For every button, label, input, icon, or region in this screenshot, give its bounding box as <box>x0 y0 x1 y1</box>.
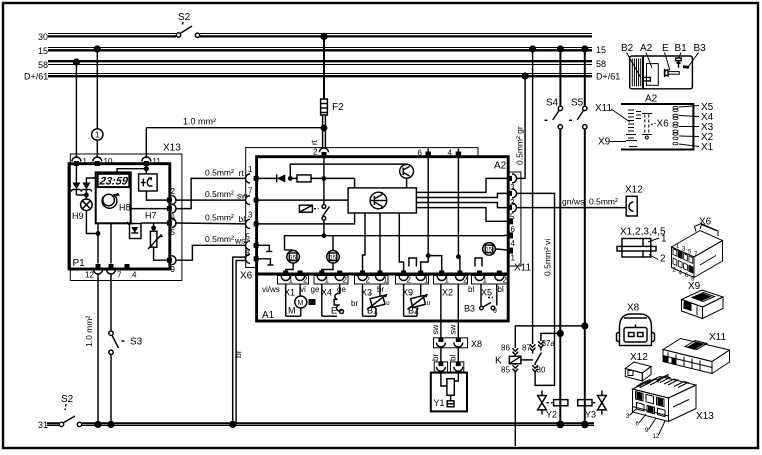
wire IC2 tail to block X4 pin <box>322 263 333 271</box>
A2 right pin 4 <box>508 232 514 238</box>
wire X13 pin9 to A1 pin5 (ws) <box>176 245 246 260</box>
svg-text:X13: X13 <box>163 143 181 154</box>
svg-text:rt: rt <box>239 168 245 178</box>
sensor B2 (trimmer, in A1) <box>403 284 405 316</box>
node: junction F2 / 1.0mm2 wire <box>321 125 328 132</box>
B3 part <box>683 65 689 69</box>
svg-text:58: 58 <box>596 59 606 69</box>
svg-text:B3: B3 <box>464 304 475 314</box>
wire 87a up to S4 wire <box>541 333 560 339</box>
wire X13 pin6 to A1 pin1 (rt) <box>176 178 246 208</box>
connector block X5 <box>472 276 510 285</box>
wire P1 pin12 to bus 31 <box>97 274 99 424</box>
stub bracket near X5 <box>475 258 482 267</box>
svg-text:7: 7 <box>117 271 122 280</box>
sensor B1 (trimmer, in A1) <box>362 284 364 316</box>
wire S5 to Y3 and bus 31 <box>584 129 586 423</box>
wire pin2-top vertical inside A2 <box>323 157 325 205</box>
wire 86 to S5 wire <box>515 326 585 345</box>
wire pin11 to internal node <box>145 166 147 174</box>
svg-text:23:59: 23:59 <box>98 176 130 188</box>
svg-text:X8: X8 <box>627 303 640 314</box>
svg-text:85: 85 <box>501 366 510 375</box>
svg-text:4: 4 <box>132 271 137 280</box>
node: junction rt line / pin2 vertical <box>322 176 327 181</box>
wire IC1 tail to block X1 pin <box>286 263 293 271</box>
Y1 internal solenoid <box>441 372 447 386</box>
svg-text:ⁿ: ⁿ <box>369 292 371 299</box>
svg-text:B1: B1 <box>675 43 688 54</box>
svg-text:1: 1 <box>95 131 100 140</box>
IC lamp symbol 3 (circle 15) at right <box>483 243 496 256</box>
svg-text:X2: X2 <box>442 288 453 298</box>
svg-text:6: 6 <box>418 149 423 158</box>
valve Y2 <box>538 396 547 410</box>
wire from pin11 node to H8 top <box>117 169 146 173</box>
wire 1.0mm2 from X13 pin11 to F2 node <box>145 128 147 158</box>
wire S3 to bus 31 <box>110 355 112 424</box>
svg-text:gn/ws: gn/ws <box>562 197 584 207</box>
A2 top pin 6 <box>426 152 432 158</box>
X13 pin 11 <box>142 157 151 162</box>
wire A2 pin3 to D+/61 (gr) <box>517 76 526 178</box>
svg-text:F2: F2 <box>332 102 344 113</box>
valve Y1 (housing) <box>431 373 467 412</box>
X13 pin 12 (bottom) <box>96 264 101 269</box>
A2 left pin 8 <box>246 254 250 263</box>
svg-text:A2: A2 <box>645 94 658 105</box>
svg-text:H9: H9 <box>72 211 84 221</box>
transistor symbol in U1 <box>370 192 387 209</box>
internal bus line (to right pin 4) <box>285 235 505 250</box>
wire 15 to relay 87 <box>532 49 534 344</box>
A2 right pin 6 <box>508 218 514 224</box>
wire 15 to X13 pin10 (upper part) <box>96 49 98 129</box>
svg-text:vi: vi <box>300 285 306 294</box>
svg-text:X1,2,3,4,5: X1,2,3,4,5 <box>620 227 666 238</box>
control unit A2/A1 (housing) <box>257 157 509 321</box>
node: junction 31 / S3 wire <box>107 421 114 428</box>
U1 output line 1 to right pin 3 <box>416 178 507 192</box>
svg-text:ws: ws <box>234 236 245 246</box>
svg-text:X4: X4 <box>321 288 332 298</box>
svg-text:X12: X12 <box>630 352 648 363</box>
node: junction bus / pin2 vertical <box>322 233 327 238</box>
X13 pin 7 (bottom) <box>109 264 114 269</box>
wire 15 to X13 pin10 (lower part) <box>96 140 98 158</box>
wire S4 to Y2 and bus 31 <box>559 129 561 423</box>
svg-text:30: 30 <box>38 32 48 42</box>
stub from left pin 5 <box>259 245 270 251</box>
node: junction H9 wire / pin12 wire <box>96 231 101 236</box>
svg-text:E: E <box>662 43 669 54</box>
Y1 pin housings <box>434 362 447 372</box>
display window of H8 <box>98 174 130 187</box>
svg-text:5: 5 <box>246 233 251 242</box>
svg-text:X11: X11 <box>514 263 531 274</box>
IC lamp symbol 1 (circle 15) <box>287 250 300 263</box>
svg-text:ⁿ: ⁿ <box>410 292 412 299</box>
svg-text:ʋ: ʋ <box>427 300 431 307</box>
svg-text:X5: X5 <box>481 288 492 298</box>
B2 small part <box>643 77 650 81</box>
wire P1 pin7 to S3 <box>110 274 112 332</box>
svg-text:2: 2 <box>463 276 468 285</box>
U1 output line 4 to right pin 6 <box>416 208 504 222</box>
A2 top pin 4 <box>456 152 462 158</box>
node: junction 15 to S4 <box>557 45 564 52</box>
svg-text:X6: X6 <box>240 271 253 282</box>
svg-text:Y1: Y1 <box>434 398 445 408</box>
wire IC3 to right pin 1 <box>495 249 507 250</box>
svg-text:31: 31 <box>38 420 48 430</box>
svg-text:B2: B2 <box>408 306 419 316</box>
svg-text:θ: θ <box>493 308 497 315</box>
A2 left pin 1 <box>246 174 251 183</box>
internal bl line <box>259 213 355 224</box>
svg-text:ge: ge <box>311 285 320 294</box>
svg-text:2: 2 <box>303 276 308 285</box>
X13 pin 9 (right side) <box>172 256 177 265</box>
svg-text:M: M <box>288 306 296 316</box>
wire br (double) from X6 area to bus 31 <box>233 257 246 423</box>
node: junction pin4 vertical <box>456 254 461 259</box>
svg-text:5: 5 <box>171 228 176 237</box>
node: H7 trimmer top junction <box>151 226 156 231</box>
node 1 (circled wire reference) <box>92 129 103 140</box>
detail box of A2 (top right) <box>630 56 693 89</box>
node: diode junction <box>84 193 89 198</box>
svg-text:2: 2 <box>171 187 176 196</box>
svg-text:H7: H7 <box>145 211 157 221</box>
svg-text:sw: sw <box>449 325 458 335</box>
wire U1 bottom out 1 to block X3 <box>363 213 366 271</box>
svg-text:X11: X11 <box>709 332 726 343</box>
wire X13 pin5 to A1 pin3 (bl) <box>176 222 246 225</box>
node: junction 15 to S5 <box>581 45 588 52</box>
wire diodes to lamp H9 <box>75 190 77 196</box>
U1 output line 3 to right pin 5 <box>416 203 507 208</box>
svg-text:E: E <box>331 306 337 316</box>
wire U1 bottom out 2 to block X3 pin1 <box>379 213 381 271</box>
svg-text:2: 2 <box>313 148 318 157</box>
svg-text:B1: B1 <box>367 306 378 316</box>
wire rt node up and over to transistor Q1 <box>290 164 406 178</box>
wire H9 to pin12 drop <box>86 211 98 234</box>
stub from left pin 8 <box>259 259 271 265</box>
stepper E (in A1) <box>321 284 323 316</box>
svg-text:bl: bl <box>449 355 458 361</box>
svg-text:0.5mm² gr: 0.5mm² gr <box>515 126 525 165</box>
internal rt line: diode <box>259 177 277 179</box>
svg-text:bl: bl <box>239 214 246 224</box>
node: junction 58 to X13 pin1 wire <box>73 58 80 65</box>
svg-text:bl: bl <box>498 285 504 294</box>
svg-text:1: 1 <box>248 165 253 174</box>
A2 inner window <box>647 64 659 86</box>
svg-text:87a: 87a <box>542 339 556 348</box>
svg-text:1: 1 <box>383 276 388 285</box>
transistor Q1 (circle) <box>400 164 414 178</box>
wire trimmer to pin9 <box>154 247 167 260</box>
svg-text:A2: A2 <box>494 161 507 172</box>
wire H8 to P1 bottom pins <box>97 223 99 263</box>
svg-text:15: 15 <box>38 46 48 56</box>
svg-text:1: 1 <box>661 234 667 245</box>
node: junction inside P1 at pin11 drop <box>144 166 149 171</box>
X13 pin 1 <box>72 157 81 161</box>
wire A2 top pin6 down through to block X9 <box>428 158 442 272</box>
svg-text:X1: X1 <box>701 142 714 153</box>
svg-text:S3: S3 <box>130 337 143 348</box>
svg-text:0.5mm²: 0.5mm² <box>205 168 234 178</box>
svg-text:2: 2 <box>366 276 371 285</box>
wire rt line corner down to amp box <box>354 178 356 188</box>
svg-text:X11: X11 <box>595 103 612 114</box>
svg-text:2: 2 <box>343 276 348 285</box>
diode V2 (in P1) <box>86 178 95 183</box>
svg-text:2: 2 <box>660 254 666 265</box>
svg-text:A1: A1 <box>262 310 275 321</box>
svg-text:1.0 mm²: 1.0 mm² <box>84 316 94 347</box>
svg-text:X6: X6 <box>657 119 670 130</box>
svg-text:D+/61: D+/61 <box>24 72 48 82</box>
svg-text:X9: X9 <box>688 281 701 292</box>
svg-text:1.0 mm²: 1.0 mm² <box>183 117 216 127</box>
B2 display stripes <box>631 59 633 87</box>
wire F2 to A2 pin2 (double) <box>322 115 324 149</box>
X13 pin 10 <box>93 157 102 162</box>
svg-text:4: 4 <box>511 239 516 248</box>
svg-text:br: br <box>431 354 440 361</box>
svg-text:1: 1 <box>445 276 450 285</box>
svg-text:B3: B3 <box>694 43 707 54</box>
wire A2 top pin4 down through to block X2 <box>458 158 460 272</box>
gong symbol inside H8 <box>103 194 115 206</box>
svg-text:8: 8 <box>246 249 251 258</box>
svg-text:ʋ: ʋ <box>386 300 390 307</box>
connector block X1 <box>278 276 309 285</box>
svg-text:2: 2 <box>407 276 412 285</box>
E part (plug symbol) <box>668 72 679 75</box>
IC lamp symbol 2 (circle 15) <box>327 250 340 263</box>
X1-X5 pin column (right) <box>673 106 678 145</box>
svg-text:0.5mm²: 0.5mm² <box>205 234 234 244</box>
wire X13 pin2 to A1 pin7 (sw) <box>176 199 246 201</box>
A2 left pin 3 <box>246 219 251 228</box>
display digits 23:59 <box>98 176 130 188</box>
connector block X2 <box>434 276 468 285</box>
resistor R2 (with dashes) mid row <box>299 205 312 212</box>
svg-text:S4: S4 <box>546 98 559 109</box>
svg-text:7: 7 <box>248 187 253 196</box>
connector frame X11 (thin, right side) <box>510 172 521 266</box>
svg-text:P1: P1 <box>73 258 86 269</box>
X13 pin 5 (right side) <box>172 219 177 228</box>
svg-text:3: 3 <box>248 211 253 220</box>
connector frame X6 (thin, around A-unit left/top) <box>246 148 478 268</box>
switch B3 (thermo, in A1) <box>480 284 482 306</box>
svg-text:br: br <box>351 299 358 308</box>
svg-text:2: 2 <box>503 276 508 285</box>
svg-text:12: 12 <box>85 271 94 280</box>
svg-text:1: 1 <box>325 276 330 285</box>
switch contact on pin2 vertical <box>322 205 326 209</box>
wire H7 to X13 pin5 <box>141 222 167 224</box>
U1 output line 2 to right pin 2 <box>416 193 507 197</box>
svg-text:0.5mm²: 0.5mm² <box>205 189 234 199</box>
svg-text:15: 15 <box>485 247 492 253</box>
node: junction 86 wire / S5 wire <box>581 322 588 329</box>
clock set switch (box with symbol) <box>139 174 158 191</box>
svg-text:sw: sw <box>431 325 440 335</box>
svg-text:D+/61: D+/61 <box>596 72 620 82</box>
wire clock set box to X13 pin2 (sw out) <box>146 191 167 200</box>
node: junction pin6 vertical / hook <box>426 253 431 258</box>
switch S3 <box>109 331 113 335</box>
node: junction on rt line <box>288 176 293 181</box>
X13 pin 4 (bottom) <box>125 264 130 269</box>
bus 58 <box>48 60 592 62</box>
clock P1 (housing) <box>69 164 170 269</box>
svg-text:30: 30 <box>537 366 546 375</box>
svg-text:rt: rt <box>310 139 319 145</box>
svg-text:0.5mm² vi: 0.5mm² vi <box>543 239 553 276</box>
connector block X4 <box>314 276 348 285</box>
node: junction 15 to relay 87 wire <box>529 45 536 52</box>
svg-text:15: 15 <box>596 45 606 55</box>
svg-text:S2: S2 <box>61 394 74 405</box>
lamp H9 (circle with X) <box>81 199 93 211</box>
wire 85 down to frame <box>514 374 516 446</box>
node: junction 31 / P1 pin12 wire <box>94 421 101 428</box>
resistor R1 on rt line <box>290 177 297 179</box>
A2 right pin 3 <box>512 174 517 183</box>
bus D+/61 <box>48 73 592 75</box>
svg-text:0.5mm²: 0.5mm² <box>205 213 234 223</box>
svg-text:0.5mm²: 0.5mm² <box>589 197 618 207</box>
stub bracket near X9 right <box>409 258 417 267</box>
svg-text:ge: ge <box>337 285 346 294</box>
svg-text:1: 1 <box>424 276 429 285</box>
svg-text:1: 1 <box>511 254 516 263</box>
svg-text:4: 4 <box>448 149 453 158</box>
clock module H8 (box) <box>96 172 131 223</box>
trimmer resistor (H7) <box>150 231 157 247</box>
svg-text:S5: S5 <box>571 98 584 109</box>
svg-text:vi/ws: vi/ws <box>262 285 280 294</box>
wire 30 to fuse F2 <box>323 36 325 99</box>
svg-text:58: 58 <box>38 60 48 70</box>
wire sw pair from A1/X2 down to X8 <box>440 284 442 339</box>
connector block X9 <box>396 276 429 285</box>
B1 part <box>676 58 682 61</box>
svg-text:3: 3 <box>510 183 515 192</box>
svg-text:X13: X13 <box>696 411 714 422</box>
wire A2 pin5 to X12 (gn/ws) <box>517 207 627 209</box>
svg-text:9: 9 <box>171 265 176 274</box>
node: junction 87a wire / S4 wire <box>557 330 564 337</box>
A2 left pin 7 <box>246 196 251 205</box>
diode V1 (in P1) <box>75 166 77 183</box>
svg-text:sw: sw <box>237 191 248 201</box>
node: junction 15 to X13 pin10 wire <box>94 45 101 52</box>
A2 top pin 2 <box>319 148 328 153</box>
amplifier box U1 <box>348 188 416 213</box>
svg-text:br: br <box>233 350 243 358</box>
wire U1 bottom out 3 to block X9 <box>399 213 403 271</box>
internal sw line to amp box <box>259 199 349 201</box>
svg-text:A2: A2 <box>640 43 653 54</box>
X13 pin 6 (right side) <box>172 204 177 213</box>
svg-text:B2: B2 <box>621 43 634 54</box>
svg-text:15: 15 <box>329 255 336 261</box>
svg-text:X12: X12 <box>625 185 643 196</box>
node: junction 30 to fuse F2 <box>320 33 327 40</box>
svg-text:15: 15 <box>290 255 297 261</box>
wire 58 to X13 pin1 <box>75 62 77 158</box>
svg-text:bl: bl <box>468 285 474 294</box>
svg-text:X9: X9 <box>598 137 611 148</box>
bus 31 (double line, broken by S2 bottom) <box>47 422 59 424</box>
wire A2 pin2 to relay 30 (vi) <box>517 193 555 385</box>
bus 30 (double line, broken by S2) <box>48 33 176 35</box>
wires X8 to Y1 (br, bl) <box>440 348 442 363</box>
svg-text:X8: X8 <box>471 339 482 349</box>
divider line between A2 and A1 <box>257 273 509 276</box>
A2 right pin 5 <box>512 203 517 212</box>
bus 15 <box>48 47 592 49</box>
connector X8 <box>434 338 468 348</box>
A2 right pin 2 <box>512 189 517 198</box>
photodiode H7 (led in box) <box>130 224 142 239</box>
connector block X3 <box>355 276 389 285</box>
fuse F2 <box>321 99 328 115</box>
valve Y3 <box>598 396 607 410</box>
svg-text:1: 1 <box>289 276 294 285</box>
node: junction 31 / Y3 <box>581 421 589 429</box>
wire H8 to X13 pin6 (rt out) <box>131 208 167 210</box>
svg-text:1: 1 <box>483 276 488 285</box>
svg-text:H8: H8 <box>119 203 131 213</box>
A2 right pin 1 <box>508 248 514 254</box>
svg-text:86: 86 <box>501 344 510 353</box>
svg-text:M: M <box>298 300 304 307</box>
svg-text:S2: S2 <box>178 12 191 23</box>
X11 pin ladder (left column) <box>626 110 641 147</box>
node: junction 31 / Y2 <box>557 421 565 429</box>
node: junction 31 / br wire <box>229 421 236 428</box>
svg-text:Y3: Y3 <box>585 410 596 420</box>
X13 pin 2 (right side) <box>172 196 177 205</box>
svg-text:Y2: Y2 <box>546 410 557 420</box>
X6 dashed (in A2 face) <box>644 115 646 134</box>
node: junction D+/61 to A2 pin3 wire <box>522 72 529 79</box>
motor M (in A1) <box>285 284 287 316</box>
A2 left pin 5 <box>246 241 251 250</box>
